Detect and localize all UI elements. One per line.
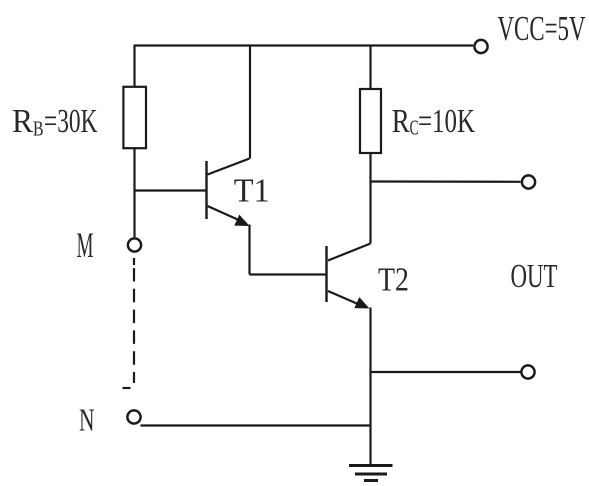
terminal M	[128, 238, 141, 251]
wire: N to T2 emitter column	[141, 424, 371, 426]
wire: T2 collector vertical up to RC	[369, 153, 371, 244]
transistor T2 emitter diagonal	[328, 291, 366, 308]
svg-text:M: M	[77, 225, 94, 265]
svg-text:N: N	[79, 402, 95, 438]
transistor T1 emitter diagonal	[208, 206, 247, 224]
transistor T1 collector diagonal	[208, 159, 250, 175]
svg-text:T1: T1	[234, 173, 270, 210]
ground	[349, 466, 393, 481]
wire: dashed link M to N, first short dash	[133, 258, 135, 265]
wire: RC top lead to rail	[369, 46, 371, 90]
transistor T1 emitter arrow	[234, 215, 249, 226]
svg-text:R: R	[392, 103, 410, 140]
svg-text:=10K: =10K	[418, 103, 475, 140]
transistor T2 base bar	[325, 246, 327, 302]
svg-text:B: B	[33, 117, 44, 141]
resistor RB	[123, 87, 146, 148]
svg-text:T2: T2	[378, 262, 409, 299]
terminal VCC	[474, 40, 487, 53]
svg-text:R: R	[12, 103, 33, 140]
wire: dashed link M to N	[133, 268, 135, 383]
wire: base node down to terminal M	[133, 191, 135, 238]
terminal OUT lower	[521, 365, 534, 378]
wire: T1 base wire	[135, 189, 206, 191]
label RB=30K	[12, 103, 98, 141]
transistor T2 emitter arrow	[354, 297, 369, 308]
terminal OUT upper	[522, 175, 535, 188]
wire: T1 emitter vertical down	[248, 225, 250, 275]
resistor RC	[360, 89, 381, 153]
wire: RB bottom lead to base node	[133, 148, 135, 191]
wire: top VCC rail	[135, 44, 474, 46]
wire: left vertical from rail to RB top	[133, 45, 135, 87]
transistor T1 base bar	[205, 161, 207, 219]
svg-text:VCC=5V: VCC=5V	[498, 9, 586, 48]
wire: T1 emitter to T2 base	[250, 273, 326, 275]
svg-text:=30K: =30K	[44, 103, 98, 140]
label RC=10K	[392, 103, 476, 140]
wire: collector node to OUT upper terminal	[371, 180, 521, 183]
terminal N	[127, 410, 140, 423]
wire: dashed link final tick	[123, 387, 131, 389]
wire: T2 emitter vertical down to ground	[369, 308, 371, 466]
svg-text:OUT: OUT	[511, 258, 558, 295]
transistor T2 collector diagonal	[328, 244, 371, 261]
wire: T1 collector vertical up to rail	[249, 46, 251, 159]
wire: emitter node to OUT lower terminal	[371, 371, 522, 373]
